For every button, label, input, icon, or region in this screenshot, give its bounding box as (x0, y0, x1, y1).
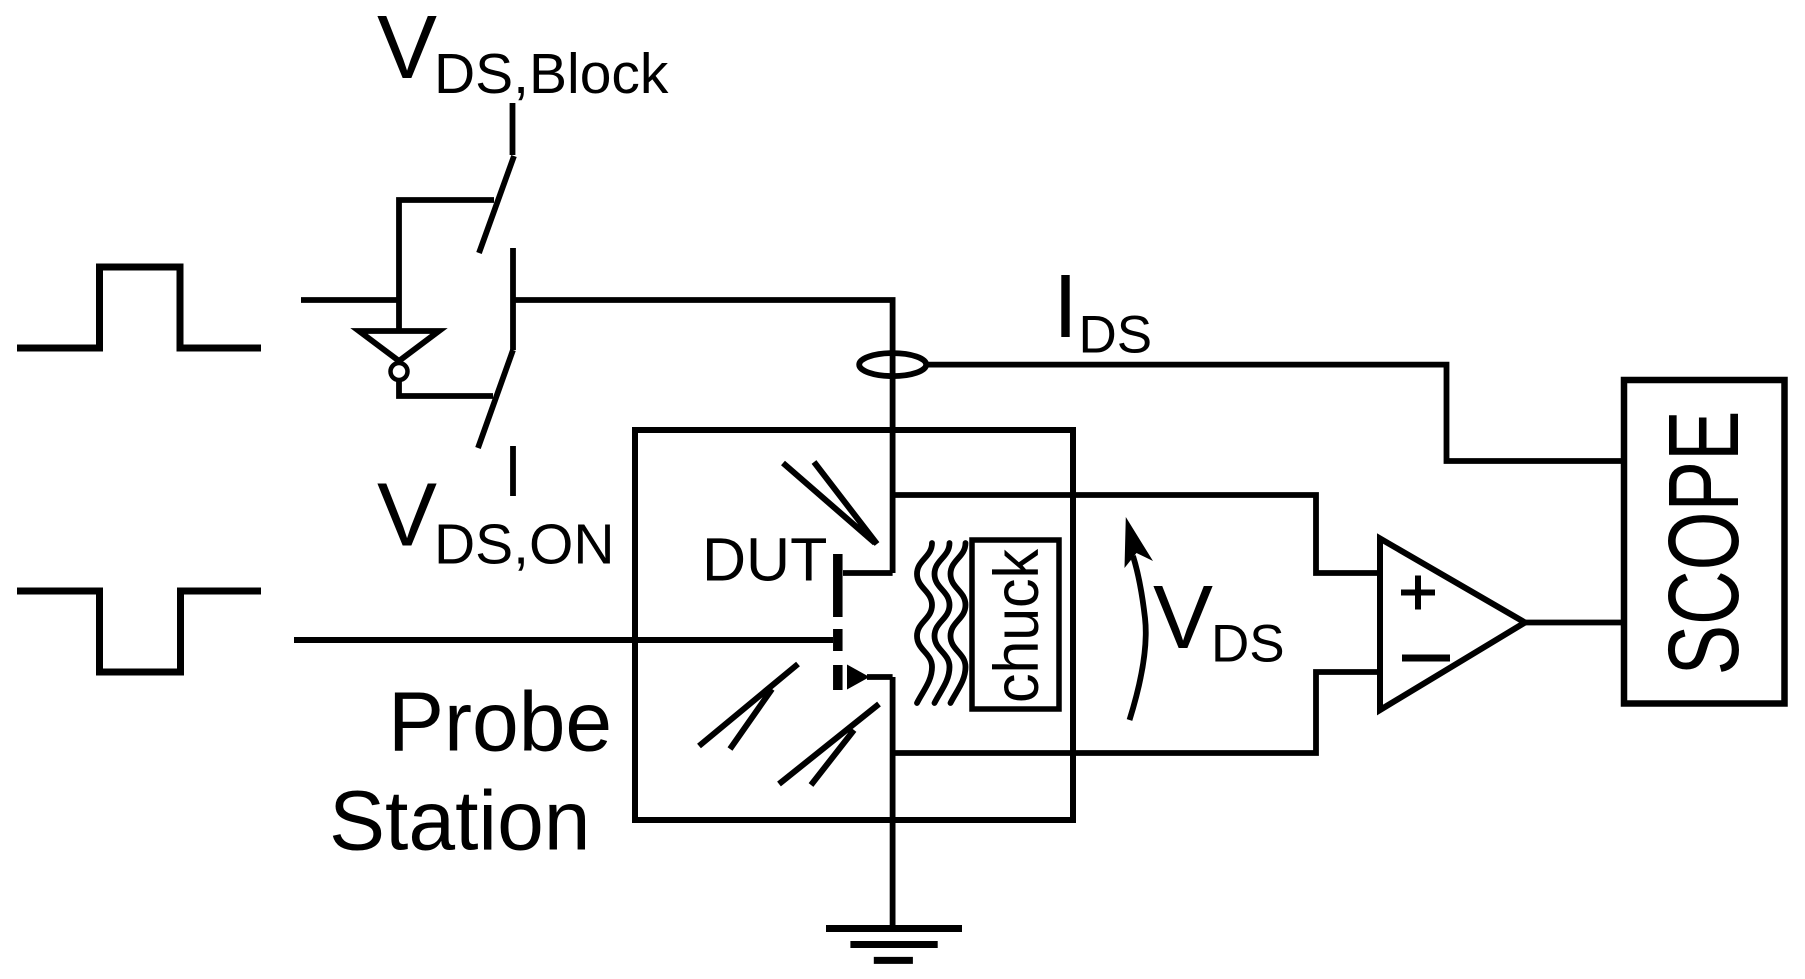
svg-text:V: V (377, 0, 437, 98)
arrow VDS curved (1130, 556, 1146, 720)
probe needle bottom-right (779, 704, 879, 785)
wire from VDS,Block to upper switch (510, 103, 516, 155)
svg-text:DS: DS (1211, 615, 1285, 674)
heat waves (917, 543, 932, 703)
svg-text:chuck: chuck (981, 549, 1051, 704)
wire upper contact to left branch (399, 200, 494, 331)
switch S1 upper blade (479, 156, 514, 253)
label VDS (1153, 568, 1285, 674)
wire pulse input upper (301, 297, 399, 303)
transistor Q1 drain dash (833, 554, 843, 617)
box probe station (635, 430, 1073, 820)
current probe ellipse (859, 353, 926, 376)
label IDS (1053, 257, 1152, 365)
label VDS,Block (377, 0, 669, 106)
wire VDS sense top (893, 495, 1377, 573)
node pole junction (510, 248, 516, 350)
label VDS,ON (377, 466, 615, 577)
wire bubble to lower contact (399, 381, 493, 396)
pulse waveform upper (17, 267, 261, 348)
svg-text:DS: DS (1079, 306, 1153, 365)
inverter bubble (391, 363, 408, 380)
svg-text:Station: Station (329, 774, 591, 868)
transistor Q1 source arrow (847, 665, 870, 690)
inverter U1 (359, 331, 439, 361)
svg-text:V: V (377, 466, 437, 566)
op-amp minus (1402, 655, 1450, 662)
svg-text:DS,ON: DS,ON (434, 513, 615, 577)
svg-text:DUT: DUT (702, 526, 827, 594)
op-amp U2 (1380, 539, 1525, 711)
wire op-amp output (1525, 620, 1621, 626)
wire VDS sense bottom (893, 672, 1377, 753)
ground (826, 925, 962, 932)
wire gate input (294, 637, 833, 643)
transistor Q1 source dash (833, 665, 843, 690)
svg-text:I: I (1053, 257, 1078, 357)
box chuck (972, 540, 1059, 709)
switch S2 lower terminal (510, 446, 516, 496)
box scope (1624, 380, 1785, 704)
label Probe Station (329, 675, 612, 868)
wire main bus to drain (513, 300, 893, 573)
svg-text:SCOPE: SCOPE (1648, 411, 1760, 676)
wire IDS to scope (924, 365, 1621, 461)
svg-text:Probe: Probe (388, 675, 612, 769)
transistor Q1 gate dash (833, 629, 843, 651)
probe needle top (783, 462, 877, 544)
probe needle bottom-left (699, 664, 798, 749)
pulse waveform lower (17, 591, 261, 672)
svg-text:DS,Block: DS,Block (434, 42, 669, 106)
svg-text:V: V (1153, 568, 1213, 668)
transistor Q1 drain lead (843, 570, 893, 576)
transistor Q1 source lead (867, 674, 893, 680)
op-amp plus (1401, 576, 1435, 610)
wire source to ground (890, 677, 896, 925)
switch S2 lower blade (478, 350, 513, 448)
